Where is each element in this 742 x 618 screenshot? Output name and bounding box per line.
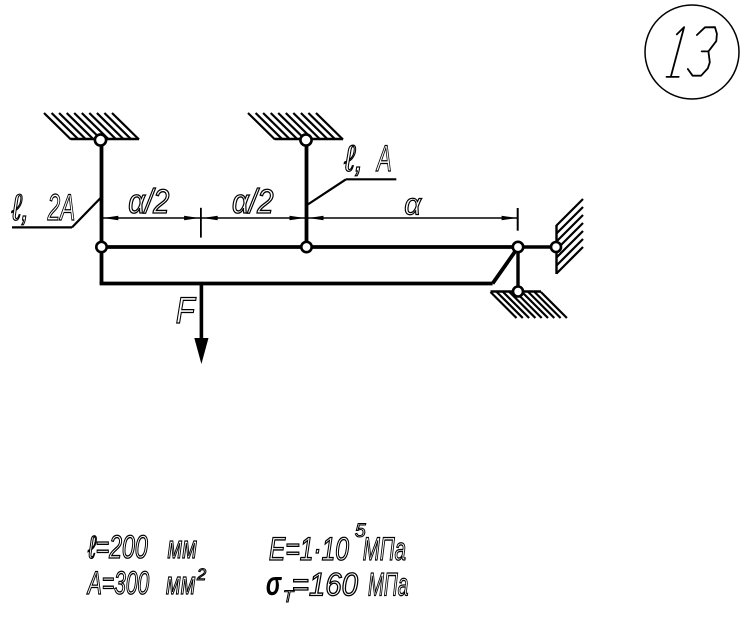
svg-text:α/2: α/2 [232,182,274,220]
svg-text:МПа: МПа [368,566,408,602]
svg-text:мм: мм [168,529,198,565]
svg-text:F: F [176,291,197,332]
svg-text:ℓ=200: ℓ=200 [87,529,148,565]
svg-text:E=1·10: E=1·10 [269,532,349,568]
svg-text:=160: =160 [292,566,358,602]
svg-text:МПа: МПа [363,531,406,567]
svg-text:A: A [375,138,391,179]
svg-text:ℓ,: ℓ, [11,188,29,229]
svg-text:2A: 2A [47,187,75,228]
svg-text:α: α [404,188,422,222]
svg-text:α/2: α/2 [128,182,169,221]
svg-text:σ: σ [266,566,283,603]
svg-text:A=300: A=300 [86,564,149,601]
svg-text:мм: мм [166,565,196,601]
svg-text:2: 2 [196,566,206,584]
svg-text:T: T [283,587,295,606]
svg-text:ℓ,: ℓ, [343,139,363,180]
